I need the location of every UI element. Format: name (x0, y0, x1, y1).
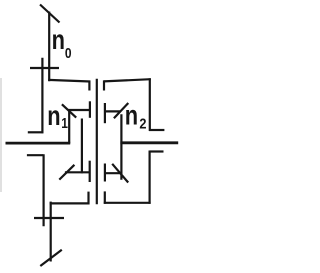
upper-left bevel T-bar (89, 101, 91, 118)
svg-text:n: n (125, 100, 138, 131)
upper-left bevel slash (62, 104, 76, 117)
input shaft n0 (48, 12, 50, 82)
right frame upper foot (149, 129, 164, 131)
carrier arm top-right (104, 79, 151, 81)
shaft break slash bottom (40, 250, 62, 266)
left gear vertical (81, 119, 83, 174)
upper-right bevel slash (114, 103, 128, 118)
svg-text:0: 0 (65, 45, 72, 62)
lower-right bevel axle (105, 172, 123, 174)
upper-right bevel axle (105, 110, 121, 112)
right gear vertical (120, 114, 122, 180)
scan artifact left edge (0, 78, 2, 192)
gear bar on bottom shaft (34, 217, 64, 219)
svg-text:n: n (47, 100, 60, 131)
carrier arm bottom-left (50, 202, 90, 204)
central planet axis (96, 79, 98, 205)
ring gear left wall upper (41, 58, 43, 134)
shaft break slash top (40, 5, 60, 23)
carrier tick up right (104, 191, 106, 203)
upper-left bevel axle (68, 109, 90, 111)
upper-right bevel T-bar (104, 103, 106, 123)
ring gear left wall lower (42, 154, 44, 226)
right frame vertical upper (149, 78, 151, 131)
output shaft n2 (120, 141, 178, 144)
output shaft n1 (6, 142, 71, 145)
carrier tick up left (87, 192, 89, 205)
carrier tick down right (103, 80, 105, 90)
lower-right bevel slash (112, 164, 128, 183)
lower-left bevel T-bar (89, 161, 91, 182)
lower-left bevel slash (59, 165, 74, 180)
right frame vertical lower (149, 151, 151, 204)
n1 shaft elbow vertical (68, 109, 70, 144)
lower-right bevel T-bar (104, 164, 106, 182)
ring gear lower-left foot (27, 154, 43, 156)
svg-text:n: n (52, 25, 65, 56)
svg-text:1: 1 (61, 115, 68, 132)
svg-text:2: 2 (139, 114, 146, 131)
gear bar on shaft n0 (30, 67, 59, 69)
carrier tick down left (88, 81, 90, 91)
bottom output shaft (50, 202, 52, 262)
carrier arm top-left (48, 80, 90, 82)
carrier arm bottom-right (104, 202, 151, 204)
right frame lower foot (150, 150, 164, 152)
ring gear upper-left foot (28, 131, 44, 133)
lower-left bevel axle (65, 171, 90, 173)
